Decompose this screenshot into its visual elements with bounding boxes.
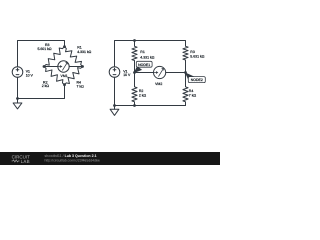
resistor R1 (diagonal)	[65, 47, 83, 67]
junction bridge right node	[81, 65, 84, 68]
svg-text:R2: R2	[139, 89, 144, 93]
flag NODE1 box	[136, 61, 152, 67]
flag NODE2 box	[188, 77, 205, 83]
voltage source V1 right	[109, 67, 120, 78]
wire bridge bottom to ground rail	[18, 85, 65, 99]
svg-text:5.631 kΩ: 5.631 kΩ	[190, 55, 204, 59]
wire R3 to node2	[185, 61, 187, 73]
flag NODE2 tail	[185, 72, 195, 79]
wire node1 to R2	[134, 73, 136, 86]
junction bridge top node	[63, 45, 66, 48]
svg-text:4.331 kΩ: 4.331 kΩ	[140, 55, 154, 59]
ground right	[114, 106, 116, 110]
resistor R2 (vertical)	[132, 86, 137, 103]
wire V1 bottom	[17, 77, 19, 98]
resistor R1 (vertical)	[132, 45, 137, 61]
svg-text:10 V: 10 V	[26, 74, 34, 78]
flag NODE1 tail	[134, 66, 143, 73]
meter VM1 stubs	[44, 66, 83, 68]
svg-text:2 kΩ: 2 kΩ	[139, 94, 147, 98]
svg-text:7 kΩ: 7 kΩ	[77, 85, 85, 89]
svg-text:LAB: LAB	[21, 159, 30, 164]
resistor R3 (diagonal)	[44, 47, 65, 67]
labels left circuit	[26, 43, 92, 89]
svg-text:R4: R4	[189, 89, 194, 93]
svg-text:htfp://circuitlab.com/c/23f465: htfp://circuitlab.com/c/23f465dd4d6e	[45, 158, 100, 162]
resistor R4 (diagonal)	[65, 67, 83, 85]
junction bridge left node	[43, 65, 46, 68]
meter VM1 arrowhead	[60, 65, 63, 68]
meter VM1 body	[58, 61, 69, 72]
wire node1 to VM2	[135, 72, 154, 74]
junction V1 ground tee	[16, 97, 19, 100]
wire V1 top to bridge top	[18, 41, 65, 67]
svg-text:5.601 kΩ: 5.601 kΩ	[37, 47, 51, 51]
wire branch R1 drop	[134, 41, 136, 46]
svg-text:VM2: VM2	[155, 82, 162, 86]
svg-text:4.331 kΩ: 4.331 kΩ	[77, 50, 91, 54]
voltage source V1 left	[12, 67, 23, 78]
wire R1 to node1	[134, 62, 136, 73]
meter VM2 arrowhead	[156, 71, 158, 74]
labels right circuit	[123, 50, 205, 98]
resistor R2 (diagonal)	[44, 67, 65, 85]
wire R4 to bottom rail	[185, 103, 187, 106]
svg-text:NODE1: NODE1	[138, 63, 150, 67]
wire R2 to bottom rail	[134, 103, 136, 106]
meter VM2 body	[154, 66, 166, 78]
wire V1 top rail	[115, 41, 186, 67]
ground left	[17, 99, 19, 104]
svg-text:R3: R3	[190, 50, 195, 54]
svg-text:R1: R1	[77, 45, 82, 49]
svg-text:VM1: VM1	[60, 74, 67, 78]
junction bottom rail / V1	[113, 104, 116, 107]
junction bridge bottom node	[63, 83, 66, 86]
wire node2 to R4	[185, 73, 187, 86]
junction bottom rail / R2 branch	[133, 104, 136, 107]
resistor R3 (vertical)	[183, 45, 188, 61]
resistor R4 (vertical)	[183, 86, 188, 103]
junction node1	[133, 71, 136, 74]
wire V1 bottom rail	[115, 77, 186, 105]
svg-text:NODE2: NODE2	[191, 78, 203, 82]
svg-text:7 kΩ: 7 kΩ	[189, 94, 197, 98]
junction node2	[184, 71, 187, 74]
svg-text:2 kΩ: 2 kΩ	[42, 84, 50, 88]
junction top rail / R1 branch	[133, 39, 136, 42]
svg-text:R1: R1	[140, 50, 145, 54]
svg-text:10 V: 10 V	[123, 73, 131, 77]
wire VM2 to node2	[166, 72, 186, 74]
